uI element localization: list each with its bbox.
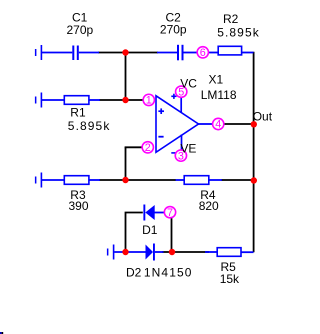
svg-text:15k: 15k xyxy=(220,272,240,286)
pin 7 xyxy=(164,207,175,218)
VE minus mark xyxy=(171,152,176,154)
pin 4 xyxy=(213,118,224,129)
port P4 D2 row xyxy=(107,249,109,256)
svg-text:390: 390 xyxy=(69,199,89,213)
svg-text:820: 820 xyxy=(199,199,219,213)
junction node D2 right xyxy=(169,249,175,255)
capacitor C1 xyxy=(72,46,74,61)
wire corner to pin2 xyxy=(126,145,143,148)
resistor R3 xyxy=(64,176,89,185)
resistor R2 xyxy=(218,46,241,55)
svg-text:5.895k: 5.895k xyxy=(217,25,260,39)
resistor R4 xyxy=(176,179,185,181)
wire row3 junction to R4 xyxy=(99,179,176,181)
svg-text:4: 4 xyxy=(215,119,221,131)
op-amp U1 triangle xyxy=(156,96,199,153)
resistor R1 xyxy=(64,96,89,105)
wire pin4 to Out node xyxy=(224,123,255,125)
svg-text:6: 6 xyxy=(200,47,206,59)
svg-text:270p: 270p xyxy=(160,23,187,37)
svg-text:X1: X1 xyxy=(209,73,224,87)
junction node R4-rail xyxy=(251,177,257,183)
resistor R5 xyxy=(205,251,218,253)
svg-text:7: 7 xyxy=(167,207,173,219)
svg-text:D1: D1 xyxy=(142,223,158,237)
junction node row1 xyxy=(122,49,128,55)
pin 3 xyxy=(175,150,186,161)
wire D2 cathode to R5 xyxy=(162,251,209,253)
op-amp plus input mark xyxy=(158,110,164,112)
pin 5 xyxy=(176,86,187,97)
svg-text:R2: R2 xyxy=(223,12,239,26)
capacitor C2 xyxy=(157,52,177,54)
wire row2 to pin1 xyxy=(99,99,144,101)
junction node Out xyxy=(251,121,257,127)
wire row1 C1 to C2 xyxy=(98,52,158,54)
svg-text:VC: VC xyxy=(180,77,197,91)
diode D2 xyxy=(146,245,154,260)
svg-text:LM118: LM118 xyxy=(201,88,237,102)
pin 1 xyxy=(143,94,154,105)
junction node D2 left xyxy=(122,249,128,255)
svg-text:VE: VE xyxy=(180,141,196,155)
svg-text:1N4150: 1N4150 xyxy=(144,266,193,280)
op-amp output lead xyxy=(199,123,214,125)
port P1 row1 xyxy=(35,49,37,56)
wire D1 corner xyxy=(126,213,143,253)
VC plus mark xyxy=(171,95,176,97)
wire left vertical pin2row-row3 xyxy=(125,147,127,180)
svg-text:2: 2 xyxy=(145,142,151,154)
svg-text:D2: D2 xyxy=(126,266,142,280)
wire left vertical row1-row2 xyxy=(125,53,127,101)
op-amp VC lead pin5 xyxy=(180,97,182,113)
junction node row3 xyxy=(122,177,128,183)
pin 6 xyxy=(197,47,208,58)
port P3 row3 xyxy=(35,177,37,184)
svg-text:1: 1 xyxy=(146,95,152,107)
wire pin7 drop to D2 row xyxy=(171,218,173,252)
svg-text:270p: 270p xyxy=(67,23,94,37)
diode D1 xyxy=(143,205,145,221)
op-amp VE lead pin3 xyxy=(181,135,183,151)
corner mark xyxy=(0,332,2,334)
junction node row2 xyxy=(122,97,128,103)
wire right rail vertical xyxy=(253,52,255,252)
port P2 row2 xyxy=(35,97,37,104)
wire R4 to right rail xyxy=(221,179,254,181)
op-amp minus input mark xyxy=(158,136,163,138)
svg-text:5.895k: 5.895k xyxy=(68,119,111,133)
pin 2 xyxy=(142,142,153,153)
svg-text:R1: R1 xyxy=(70,106,86,120)
svg-text:Out: Out xyxy=(253,110,273,124)
